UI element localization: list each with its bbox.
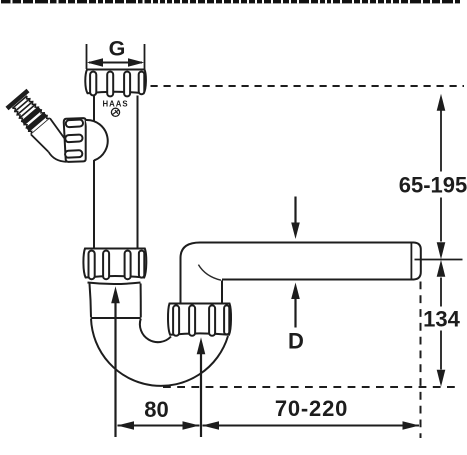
svg-text:G: G — [109, 37, 126, 61]
insertion arrow right — [197, 337, 206, 437]
U-bend outer wall — [91, 319, 228, 386]
label D with arrows — [288, 197, 304, 354]
extension line left of G — [86, 44, 88, 69]
elbow crease — [198, 265, 221, 281]
cropped header text row — [1, 0, 460, 3]
socket joint line — [91, 317, 141, 319]
union nut middle — [83, 249, 146, 280]
HAAS logo — [102, 100, 128, 117]
dimension 80 — [117, 397, 200, 430]
svg-text:70-220: 70-220 — [275, 396, 348, 421]
vertical inlet pipe — [94, 96, 138, 249]
svg-text:134: 134 — [423, 307, 460, 332]
dimension 65-195 — [399, 94, 467, 259]
union nut G (top) — [85, 70, 146, 97]
pipe end centerline — [415, 259, 463, 261]
outlet pipe end cap — [414, 243, 421, 280]
trap inlet socket — [88, 283, 141, 285]
hose union nut — [64, 118, 86, 162]
union nut bottom right — [168, 304, 231, 336]
hose nozzle (corrugated inlet hose) — [7, 91, 67, 155]
dimension 70-220 — [202, 396, 420, 430]
svg-text:65-195: 65-195 — [399, 173, 467, 198]
U-bend inner wall — [140, 319, 171, 343]
elbow body under hose nut — [49, 152, 67, 162]
side elbow dome — [86, 120, 108, 161]
outlet riser and elbow — [181, 243, 415, 304]
svg-text:80: 80 — [144, 397, 168, 422]
extension line right of G — [144, 44, 146, 69]
dimension 134 — [423, 260, 460, 387]
svg-text:HAAS: HAAS — [102, 100, 128, 109]
top dashed line — [151, 85, 465, 87]
bottom dashed line — [163, 386, 461, 388]
vertical dashed line — [420, 282, 422, 439]
insertion arrow left — [111, 286, 120, 437]
svg-text:D: D — [288, 329, 304, 354]
dimension arrow G — [87, 58, 144, 66]
horizontal outlet pipe bottom edge — [222, 279, 414, 281]
